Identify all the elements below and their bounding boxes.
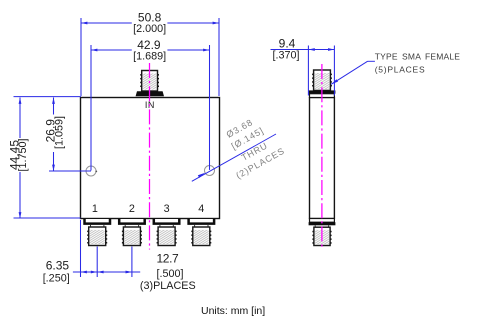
output connector base side [310,219,335,223]
divider body front view [81,98,220,219]
output connector 2 flange [119,219,145,224]
svg-text:9.4: 9.4 [279,36,296,50]
output connector 2 legs [124,225,126,227]
centerline side view [321,64,323,249]
input connector base side [310,94,335,98]
svg-text:2: 2 [129,203,135,215]
output connector thread side [312,227,331,245]
svg-text:TYPE SMA FEMALE: TYPE SMA FEMALE [375,52,461,62]
svg-text:6.35: 6.35 [46,258,70,272]
svg-text:3: 3 [164,203,170,215]
output connector 3 thread [157,227,177,246]
output connector 1 flange [85,219,111,224]
svg-text:Units: mm [in]: Units: mm [in] [201,305,265,317]
extension line port 2 [131,247,133,278]
hole callout text [215,110,287,180]
output connector 3 flange [154,219,180,224]
hole callout leader [192,134,276,181]
input connector thread side [312,70,332,90]
dimension 42.9 extension lines [90,45,92,171]
output connector 1 legs [90,225,92,227]
divider body side view [310,98,335,219]
svg-text:1: 1 [92,203,98,215]
svg-text:[.500]: [.500] [156,268,183,280]
output connector 4 thread [191,227,211,246]
output connector 1 thread [87,227,107,246]
svg-text:[1.689]: [1.689] [133,50,166,62]
svg-text:[1.750]: [1.750] [17,138,29,171]
input connector thread front [140,71,159,92]
dimension 44.45 line [19,98,21,139]
output connector 4 legs [194,225,196,227]
dimension 50.8 line [81,22,132,24]
input connector flange front [136,91,164,96]
output connector legs side [314,225,316,227]
dimension 50.8 extension lines [80,18,82,96]
extension line port 1 [96,247,98,278]
svg-text:(3)PLACES: (3)PLACES [140,280,196,292]
dimension 26.9 extension line [49,170,91,172]
dimension 9.4 line [271,49,335,51]
dimension 6.35 and 12.7 line [73,271,140,273]
dimension 9.4 extension lines [307,46,309,96]
output connector 4 flange [189,219,215,224]
dimension 26.9 line [53,98,55,115]
SMA callout leader [368,60,375,62]
svg-text:12.7: 12.7 [157,252,179,266]
dimension 42.9 line [91,49,132,51]
output connector 3 legs [159,225,161,227]
svg-text:[.250]: [.250] [43,273,70,285]
dimension 44.45 extension lines [14,96,82,98]
svg-text:[2.000]: [2.000] [133,23,166,35]
svg-text:(5)PLACES: (5)PLACES [375,65,426,75]
svg-text:[1.059]: [1.059] [54,116,66,149]
input connector nut side [309,90,336,93]
output connector 2 thread [122,227,142,246]
mounting hole left [86,166,96,176]
mounting hole right [205,166,215,176]
extension line body left edge [80,220,82,277]
svg-text:[.370]: [.370] [272,50,299,62]
svg-text:4: 4 [198,203,204,215]
centerline front view [149,63,151,250]
output connector nut side [309,222,336,225]
